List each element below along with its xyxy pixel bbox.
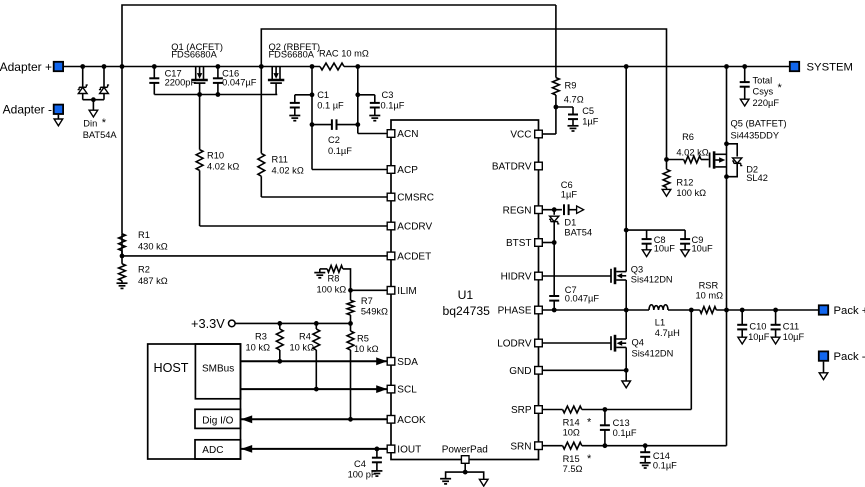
capacitor C4	[348, 449, 383, 480]
capacitor C13	[600, 410, 637, 446]
wire Din common	[83, 99, 104, 101]
svg-text:GND: GND	[509, 366, 531, 377]
svg-text:Total: Total	[753, 76, 773, 86]
node SRP C13	[603, 407, 608, 412]
wire VCC	[542, 133, 556, 135]
resistor R5	[347, 323, 378, 419]
svg-text:R1: R1	[138, 230, 150, 240]
svg-text:100 kΩ: 100 kΩ	[676, 188, 706, 198]
resistor R4	[290, 323, 320, 389]
svg-text:Adapter +: Adapter +	[0, 60, 52, 74]
wire ILIM	[351, 289, 388, 291]
svg-text:R15: R15	[563, 454, 580, 464]
svg-text:100 pF: 100 pF	[348, 469, 377, 479]
wire BTST	[542, 242, 554, 244]
svg-text:4.02 kΩ: 4.02 kΩ	[676, 147, 708, 157]
node rail Q5	[724, 64, 729, 69]
node SRN C13	[603, 443, 608, 448]
svg-text:SCL: SCL	[397, 385, 417, 396]
node rail Din2	[102, 64, 107, 69]
svg-text:HOST: HOST	[154, 361, 189, 375]
node rail Csys	[742, 64, 747, 69]
pin IOUT	[387, 445, 421, 456]
svg-text:ACP: ACP	[397, 165, 418, 176]
ground PowerPad	[440, 479, 451, 484]
svg-text:VCC: VCC	[510, 130, 531, 141]
node C2 right	[355, 122, 360, 127]
svg-text:RAC 10 mΩ: RAC 10 mΩ	[319, 48, 369, 58]
ground PowerPad arrow	[479, 479, 488, 486]
svg-text:Pack +: Pack +	[834, 305, 865, 317]
svg-text:PHASE: PHASE	[498, 306, 532, 317]
wire REGN	[542, 209, 562, 211]
svg-text:4.02 kΩ: 4.02 kΩ	[272, 165, 304, 175]
terminal SYSTEM	[790, 62, 853, 74]
pin SRP	[511, 405, 542, 416]
wire Q3 source	[625, 280, 627, 310]
capacitor C17	[149, 64, 196, 94]
wire Q5 vertical	[726, 67, 728, 311]
arrow IOUT	[241, 445, 252, 453]
capacitor C2	[312, 119, 358, 156]
resistor RAC	[319, 48, 369, 70]
inductor L1	[649, 305, 680, 338]
node D2 bottom	[724, 174, 729, 179]
terminal Pack -	[819, 351, 865, 363]
node R9 bottom	[554, 105, 559, 110]
transistor Q4	[611, 335, 673, 359]
wire gate line	[154, 94, 277, 96]
node C1 tap	[310, 92, 315, 97]
svg-text:D1: D1	[564, 217, 576, 227]
ground Q4 arrow	[622, 381, 631, 388]
pin SRN	[510, 441, 542, 452]
node SCL R4	[314, 387, 319, 392]
node rail Q3	[624, 64, 629, 69]
svg-text:ACN: ACN	[397, 129, 418, 140]
wire GND pin	[542, 369, 626, 371]
svg-text:C1: C1	[317, 90, 329, 100]
svg-text:10 kΩ: 10 kΩ	[290, 342, 315, 352]
label U1	[443, 288, 491, 318]
capacitor C16	[213, 64, 257, 94]
wire SRN up	[726, 310, 728, 446]
pin HIDRV	[501, 272, 543, 283]
node ILIM	[348, 288, 353, 293]
svg-text:SDA: SDA	[397, 357, 418, 368]
wire adapter sense up	[122, 5, 556, 234]
diode D2	[727, 144, 768, 183]
resistor R11	[258, 67, 304, 198]
svg-text:10µF: 10µF	[783, 332, 805, 342]
svg-text:U1: U1	[458, 288, 474, 302]
svg-text:R6: R6	[682, 132, 694, 142]
svg-text:4.7µH: 4.7µH	[655, 328, 680, 338]
pin ACP	[387, 165, 418, 176]
svg-text:R4: R4	[299, 331, 311, 341]
svg-text:C14: C14	[653, 451, 670, 461]
svg-text:BTST: BTST	[506, 238, 532, 249]
wire PHASE	[542, 309, 649, 311]
svg-text:10µF: 10µF	[748, 332, 770, 342]
svg-text:L1: L1	[655, 317, 665, 327]
svg-text:FDS6680A: FDS6680A	[171, 50, 217, 60]
svg-text:*: *	[102, 117, 107, 129]
wire CMSRC	[261, 196, 387, 198]
svg-text:10Ω: 10Ω	[563, 427, 580, 437]
terminal Adapter -	[3, 103, 63, 117]
wire ACOK	[241, 418, 387, 420]
svg-text:HIDRV: HIDRV	[501, 272, 532, 283]
node L1 RSR	[689, 308, 694, 313]
capacitor C11	[771, 308, 805, 344]
node C3 tap	[355, 92, 360, 97]
wire ACDET	[122, 255, 387, 257]
svg-text:C11: C11	[783, 321, 799, 331]
node C2 left	[310, 122, 315, 127]
svg-text:R8: R8	[328, 273, 340, 283]
svg-text:100 kΩ: 100 kΩ	[317, 284, 347, 294]
node PHASE Q3	[624, 308, 629, 313]
svg-text:430 kΩ: 430 kΩ	[138, 241, 168, 251]
svg-text:C4: C4	[354, 459, 366, 469]
svg-text:R5: R5	[357, 333, 369, 343]
svg-text:SL42: SL42	[746, 173, 768, 183]
node pack Q5	[724, 308, 729, 313]
resistor R15	[563, 442, 592, 474]
pin PHASE	[498, 306, 543, 317]
svg-text:R10: R10	[207, 150, 224, 160]
svg-text:0.1µF: 0.1µF	[613, 428, 637, 438]
diode Din A	[78, 67, 88, 100]
node +3.3V	[191, 316, 235, 331]
node SDA R3	[277, 359, 282, 364]
node REGN	[552, 207, 557, 212]
label Q2	[269, 42, 321, 60]
svg-text:ACOK: ACOK	[397, 415, 426, 426]
svg-text:R3: R3	[255, 331, 267, 341]
wire PowerPad	[464, 463, 466, 472]
svg-text:Sis412DN: Sis412DN	[632, 348, 674, 358]
pin LODRV	[497, 339, 542, 350]
op-amp U1 box	[391, 120, 539, 460]
capacitor C5	[556, 106, 599, 131]
svg-text:SMBus: SMBus	[202, 363, 234, 374]
wire PowerPad right	[465, 472, 484, 479]
wire ACN chain	[358, 67, 387, 134]
svg-text:Pack -: Pack -	[834, 351, 865, 363]
node BTST	[552, 240, 557, 245]
wire 3.3V rail	[235, 322, 350, 324]
svg-text:R2: R2	[138, 264, 150, 274]
block ADC	[195, 440, 241, 459]
svg-text:0.1µF: 0.1µF	[328, 146, 352, 156]
ground adapter- arrow	[54, 119, 63, 126]
pin SDA	[387, 357, 418, 368]
svg-text:REGN: REGN	[503, 205, 532, 216]
transistor Q3	[611, 264, 673, 284]
node R3 top	[277, 321, 282, 326]
svg-text:220µF: 220µF	[753, 98, 780, 108]
svg-text:Sis412DN: Sis412DN	[631, 274, 673, 284]
svg-text:PowerPad: PowerPad	[442, 444, 488, 455]
pin PowerPad	[461, 456, 469, 464]
transistor Q2	[268, 67, 284, 95]
svg-text:FDS6680A: FDS6680A	[269, 50, 315, 60]
label PowerPad	[442, 444, 488, 455]
svg-text:SRP: SRP	[511, 405, 532, 416]
node SRN C14	[643, 443, 648, 448]
resistor R7	[347, 290, 388, 323]
node Q3 drain tap	[624, 228, 629, 233]
pin ACN	[387, 129, 418, 140]
resistor R9	[553, 5, 584, 134]
svg-text:C2: C2	[328, 135, 340, 145]
svg-text:Q3: Q3	[631, 264, 643, 274]
svg-text:ACDRV: ACDRV	[397, 222, 432, 233]
wire PowerPad left	[446, 472, 466, 479]
svg-text:C13: C13	[613, 418, 630, 428]
svg-text:4.02 kΩ: 4.02 kΩ	[207, 162, 239, 172]
capacitor Csys	[740, 67, 783, 108]
ground R2	[117, 283, 128, 288]
resistor R12	[662, 160, 706, 198]
svg-text:487 kΩ: 487 kΩ	[138, 276, 168, 286]
svg-text:BATDRV: BATDRV	[492, 162, 532, 173]
pin ILIM	[387, 286, 417, 297]
wire SRP lead	[542, 409, 562, 411]
wire L1 to RSR	[668, 309, 700, 311]
svg-text:10uF: 10uF	[654, 244, 676, 254]
svg-text:IOUT: IOUT	[397, 445, 421, 456]
svg-text:R7: R7	[361, 296, 373, 306]
wire adapter rail left	[64, 66, 320, 68]
pin VCC	[510, 130, 542, 141]
arrow SDA	[376, 357, 387, 365]
pin ACDRV	[387, 222, 432, 233]
pin ACOK	[387, 415, 426, 426]
transistor Q5	[710, 118, 787, 168]
svg-text:1µF: 1µF	[561, 189, 578, 199]
node rail x122	[120, 64, 125, 69]
wire C8C9 rail	[626, 229, 685, 231]
svg-text:C3: C3	[382, 90, 394, 100]
capacitor C8	[642, 230, 676, 257]
svg-text:10 mΩ: 10 mΩ	[696, 291, 724, 301]
pin SCL	[387, 385, 417, 396]
svg-text:Dig I/O: Dig I/O	[202, 415, 233, 426]
wire RSR to Pack+	[716, 309, 818, 311]
svg-text:ILIM: ILIM	[397, 286, 416, 297]
svg-text:10 kΩ: 10 kΩ	[354, 344, 379, 354]
svg-text:R11: R11	[272, 154, 288, 164]
svg-text:Q5 (BATFET): Q5 (BATFET)	[731, 118, 787, 128]
node rail ACN	[355, 64, 360, 69]
svg-text:SYSTEM: SYSTEM	[807, 62, 853, 74]
svg-text:CMSRC: CMSRC	[397, 193, 434, 204]
svg-text:LODRV: LODRV	[497, 339, 532, 350]
resistor R14	[563, 406, 592, 437]
svg-text:0.047µF: 0.047µF	[222, 78, 257, 88]
svg-text:Adapter -: Adapter -	[3, 103, 52, 117]
wire SRN line	[582, 445, 727, 447]
wire top line2	[261, 29, 666, 160]
arrow C6 out	[577, 206, 584, 213]
terminal Adapter +	[0, 60, 63, 74]
svg-text:R9: R9	[565, 80, 577, 90]
node ACDET junction	[120, 254, 125, 259]
wire SRP line	[582, 409, 692, 411]
wire Q3 drain	[625, 67, 627, 272]
svg-text:549kΩ: 549kΩ	[361, 306, 388, 316]
pin REGN	[503, 205, 543, 216]
block SMBus	[195, 344, 240, 399]
wire ACP chain	[312, 67, 387, 170]
svg-text:4.7Ω: 4.7Ω	[564, 95, 584, 105]
node Din common	[91, 97, 96, 102]
wire adapter- stub	[57, 115, 59, 119]
wire Din down	[92, 100, 94, 111]
capacitor C1	[289, 90, 344, 121]
wire SRP up	[690, 310, 692, 410]
wire SDA	[241, 360, 388, 362]
svg-text:Q4: Q4	[632, 337, 644, 347]
block Dig I/O	[195, 409, 241, 428]
svg-text:BAT54A: BAT54A	[83, 130, 118, 140]
svg-text:*: *	[587, 417, 592, 429]
resistor RSR	[696, 280, 724, 313]
svg-text:BAT54: BAT54	[564, 227, 592, 237]
label Q1	[171, 42, 223, 60]
node Q4 source	[624, 368, 629, 373]
diode Din B	[99, 67, 109, 100]
svg-text:1µF: 1µF	[582, 116, 599, 126]
node ACOK R5	[348, 417, 353, 422]
pin BATDRV	[492, 162, 542, 173]
node Q1 gate	[197, 92, 202, 97]
svg-text:RSR: RSR	[699, 280, 719, 290]
svg-text:bq24735: bq24735	[443, 304, 491, 318]
node IOUT C4	[375, 447, 380, 452]
svg-text:ACDET: ACDET	[397, 252, 431, 263]
wire Q4 source	[625, 347, 627, 381]
resistor R2	[119, 256, 168, 286]
pin ACDET	[387, 252, 431, 263]
arrow SCL	[376, 385, 387, 393]
resistor R1	[119, 230, 168, 256]
wire HIDRV	[542, 275, 611, 277]
wire pack- stub	[823, 362, 825, 373]
capacitor C7	[549, 243, 599, 311]
svg-text:10uF: 10uF	[692, 244, 714, 254]
svg-text:*: *	[778, 82, 783, 94]
node PHASE C7	[552, 308, 557, 313]
svg-text:Si4435DDY: Si4435DDY	[731, 130, 780, 140]
svg-text:ADC: ADC	[202, 445, 223, 456]
capacitor C3	[358, 90, 405, 121]
node R6 R12	[664, 157, 669, 162]
label Din	[83, 117, 118, 140]
svg-text:7.5Ω: 7.5Ω	[563, 464, 583, 474]
wire adapter rail right	[344, 66, 789, 68]
arrow ACOK	[241, 415, 252, 423]
resistor R3	[246, 323, 284, 361]
svg-text:Csys: Csys	[753, 86, 774, 96]
node R4 top	[314, 321, 319, 326]
svg-text:C10: C10	[749, 321, 766, 331]
svg-text:SRN: SRN	[510, 441, 531, 452]
pin CMSRC	[387, 193, 434, 204]
resistor R10	[196, 95, 239, 227]
svg-text:0.1µF: 0.1µF	[381, 101, 405, 111]
resistor R8	[314, 266, 350, 295]
pin GND	[509, 366, 542, 377]
wire IOUT	[241, 448, 387, 450]
svg-text:Din: Din	[83, 119, 97, 129]
svg-text:0.1 µF: 0.1 µF	[317, 101, 344, 111]
diode D1	[549, 210, 592, 243]
ground Din arrow	[89, 110, 98, 117]
svg-text:C6: C6	[561, 180, 573, 190]
ground pack- arrow	[819, 373, 828, 380]
capacitor C10	[737, 308, 770, 344]
wire LODRV	[542, 342, 611, 344]
capacitor C9	[680, 230, 713, 257]
node C16 bottom	[216, 92, 221, 97]
capacitor C6	[561, 180, 578, 215]
wire SCL	[241, 388, 388, 390]
block HOST	[148, 344, 241, 459]
node PowerPad	[463, 470, 468, 475]
svg-text:10 kΩ: 10 kΩ	[246, 342, 271, 352]
resistor R6	[667, 132, 709, 163]
svg-text:0.1µF: 0.1µF	[653, 460, 677, 470]
capacitor C14	[640, 446, 677, 471]
node D2 top	[724, 141, 729, 146]
svg-text:*: *	[587, 453, 592, 465]
terminal Pack +	[819, 305, 865, 317]
node rail ACP	[310, 64, 315, 69]
svg-text:+3.3V: +3.3V	[191, 316, 225, 331]
svg-text:R14: R14	[563, 417, 580, 427]
wire ACDRV	[200, 225, 388, 227]
svg-text:C5: C5	[582, 106, 594, 116]
wire top line1	[121, 234, 123, 256]
transistor Q1	[191, 67, 207, 95]
node R7 bottom	[348, 321, 353, 326]
wire SRN lead	[542, 445, 562, 447]
node rail common source	[259, 64, 264, 69]
wire Q4 drain	[625, 310, 627, 339]
svg-text:0.047µF: 0.047µF	[565, 294, 600, 304]
pin BTST	[506, 238, 542, 249]
svg-text:R12: R12	[676, 177, 693, 187]
node rail Din1	[80, 64, 85, 69]
